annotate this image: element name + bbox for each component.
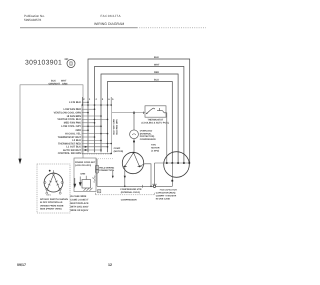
wire from board to thermostat: [112, 112, 145, 114]
svg-text:09/17: 09/17: [17, 263, 26, 267]
svg-text:FIELD WIRING: FIELD WIRING: [99, 166, 114, 169]
terminal stub pin 2: [81, 97, 83, 105]
svg-text:(INTERNAL OVLD): (INTERNAL OVLD): [121, 191, 140, 194]
svg-text:WITH 105C 600V: WITH 105C 600V: [70, 205, 88, 208]
svg-text:5995438578: 5995438578: [24, 18, 41, 22]
svg-text:COMPRESSOR: COMPRESSOR: [121, 198, 137, 201]
svg-text:FAN CAPACITOR: FAN CAPACITOR: [160, 189, 177, 192]
wire row 4: [82, 115, 101, 117]
overload label: [140, 130, 156, 141]
svg-text:PROTECTOR): PROTECTOR): [140, 135, 155, 138]
terminal pin numbers: [83, 98, 114, 101]
svg-text:NO: NO: [65, 58, 69, 61]
terminal junction dots on board top: [82, 104, 112, 106]
svg-text:1: 1: [89, 98, 91, 101]
svg-text:4: 4: [95, 98, 97, 101]
wire nut symbol: [65, 58, 75, 68]
compressor motor: [122, 152, 143, 173]
LCDI device coil: [95, 170, 98, 173]
fan motor winding chord: [155, 162, 190, 164]
wire row 1: [82, 101, 88, 103]
wire row 2: [82, 108, 95, 110]
wire row 7: [82, 125, 101, 127]
overload protector OL: [130, 130, 139, 139]
wire S leg: [124, 166, 126, 186]
svg-text:RED: RED: [154, 71, 159, 74]
bottom bus wire: [97, 185, 173, 187]
wire row 14: [82, 149, 101, 151]
svg-text:OVERLOAD: OVERLOAD: [140, 130, 153, 133]
rotary top stem: [53, 170, 55, 172]
rotary switch face: [44, 173, 63, 192]
ground arrow plug: [79, 177, 81, 183]
junction square on fan lead: [171, 180, 173, 182]
rotary switch enclosure (dashed): [37, 164, 70, 213]
svg-text:2: 2: [83, 98, 85, 101]
terminal C: [133, 152, 135, 154]
control box (selector switch enclosure): [20, 85, 83, 160]
svg-text:CONTROL SW GRN: CONTROL SW GRN: [58, 152, 81, 155]
wire overload to compressor: [133, 139, 135, 153]
svg-text:GRN: GRN: [80, 172, 85, 175]
wire row 13: [82, 146, 108, 148]
svg-text:LOW COOL GRY: LOW COOL GRY: [61, 125, 81, 128]
wire note legend: [70, 195, 89, 212]
svg-text:COMPRESSOR MTR: COMPRESSOR MTR: [120, 188, 142, 191]
thermostat box: [145, 106, 166, 117]
compressor windings: [123, 153, 142, 167]
wire thermostat to L4: [165, 113, 168, 163]
wire row 8: [82, 129, 88, 131]
svg-text:MUST REPLACE: MUST REPLACE: [70, 202, 89, 205]
fan motor bottom lead: [171, 163, 173, 186]
rotary switch spokes: [48, 175, 54, 189]
svg-text:WHT: WHT: [154, 64, 160, 67]
svg-text:L1 IN BLK: L1 IN BLK: [69, 101, 81, 104]
switch terminal board bottom edge: [82, 153, 112, 155]
svg-text:CONNECTION: CONNECTION: [99, 169, 114, 172]
svg-text:THERMOSTAT: THERMOSTAT: [148, 119, 164, 122]
switch terminal board box: [82, 105, 112, 154]
cord coil: [94, 176, 95, 183]
run capacitor: [154, 163, 156, 185]
svg-text:12: 12: [108, 263, 112, 267]
header rule: [20, 27, 137, 29]
fan motor label: [151, 144, 160, 153]
ground arrow left: [74, 178, 76, 185]
rotary switch terminals: [44, 173, 63, 195]
svg-text:309103901: 309103901: [25, 59, 62, 66]
wire row 12: [82, 143, 111, 145]
wire row 6: [82, 122, 95, 124]
svg-text:IN ONE CASE: IN ONE CASE: [156, 197, 171, 200]
svg-text:POWER CORD SET: POWER CORD SET: [75, 161, 96, 164]
svg-text:(3 SPD): (3 SPD): [151, 149, 159, 152]
svg-text:GRN: GRN: [62, 82, 68, 85]
svg-text:IN OFF POSITION AS: IN OFF POSITION AS: [40, 201, 63, 204]
junction square on compressor feed: [133, 141, 135, 143]
svg-text:BLK WHT GRN: BLK WHT GRN: [113, 119, 116, 135]
svg-text:FAN: FAN: [151, 144, 156, 147]
terminal S: [124, 166, 126, 168]
svg-text:(COOLING & AUTO POS.): (COOLING & AUTO POS.): [142, 122, 170, 125]
svg-text:SIDE (FRONT VIEW): SIDE (FRONT VIEW): [40, 208, 62, 211]
arrow on AUTO SWITCH row: [85, 149, 88, 151]
capacitor terminal: [153, 185, 155, 187]
compressor circuit bracket: [96, 193, 155, 195]
plug hatching: [84, 188, 93, 191]
wire to overload: [133, 113, 135, 130]
wire loop L3: [101, 74, 178, 163]
svg-text:FAC063J7A: FAC063J7A: [101, 14, 122, 18]
svg-text:(INTERNAL: (INTERNAL: [140, 132, 152, 135]
wire row 10: [82, 136, 95, 138]
svg-text:MOTOR: MOTOR: [151, 147, 160, 150]
thermostat switch symbol: [144, 108, 167, 114]
svg-text:GRN/WHT: GRN/WHT: [49, 82, 61, 85]
wire loop L2: [95, 67, 184, 164]
plug body: [82, 180, 91, 189]
arrow on S leg: [124, 176, 126, 179]
svg-text:VIEWED FROM KNOB: VIEWED FROM KNOB: [40, 204, 64, 207]
LCDI device body: [95, 166, 98, 170]
svg-text:BLU RED ORN: BLU RED ORN: [116, 119, 119, 135]
header publication number: [24, 14, 45, 22]
switch row wires: [82, 102, 111, 153]
wire row 9: [82, 133, 108, 135]
svg-text:BLK: BLK: [154, 56, 159, 59]
dashed wire from cord box top: [96, 158, 113, 160]
wire loop L4: [108, 82, 173, 164]
plug lead: [85, 176, 87, 180]
wire loop L1 (outermost, BLK): [88, 59, 190, 163]
wire row 5: [82, 118, 108, 120]
svg-text:WIRE OR EQUIV: WIRE OR EQUIV: [70, 209, 88, 212]
svg-text:5: 5: [112, 98, 114, 101]
svg-text:CAME LOOSE IT: CAME LOOSE IT: [70, 198, 89, 201]
LCDI device lead: [96, 159, 98, 187]
svg-text:3: 3: [102, 98, 104, 101]
fan motor: [164, 152, 190, 178]
power cord box: [74, 158, 96, 192]
wire row 11: [82, 139, 101, 141]
svg-text:COMPRESSOR: COMPRESSOR: [140, 138, 156, 141]
compressor case tick: [112, 171, 114, 177]
arrow on L1 OUT row: [85, 146, 88, 148]
spoke wiper ticks: [48, 181, 59, 185]
svg-text:1 3 5: 1 3 5: [47, 194, 51, 197]
terminal R: [139, 166, 141, 168]
terminal stub pin 5: [110, 97, 112, 105]
node arrow at thermostat tap: [133, 111, 135, 114]
ground arrow at control box left lead: [18, 159, 21, 165]
bus tick: [142, 185, 144, 188]
svg-text:WIRING DIAGRAM: WIRING DIAGRAM: [94, 22, 124, 26]
svg-text:ROTARY SWITCH SHOWN: ROTARY SWITCH SHOWN: [40, 198, 68, 201]
svg-text:COMP: COMP: [114, 147, 121, 150]
switch row labels and wires: [54, 101, 82, 155]
off position dot: [49, 170, 51, 172]
wire row 15: [82, 152, 111, 154]
svg-text:COMPR + FAN MTR: COMPR + FAN MTR: [156, 195, 177, 198]
rotary switch caption: [40, 198, 68, 211]
svg-text:(MOTOR): (MOTOR): [114, 150, 124, 153]
svg-text:(LCDI OR AFCI): (LCDI OR AFCI): [75, 164, 91, 167]
svg-text:CAPACITOR (RUN): CAPACITOR (RUN): [156, 192, 176, 195]
svg-text:6: 6: [108, 98, 110, 101]
wire R leg elbow: [140, 164, 152, 187]
wire row 3: [82, 112, 88, 114]
fan motor terminal dots: [166, 162, 191, 164]
svg-text:BLU: BLU: [154, 79, 159, 82]
terminal P box: [98, 190, 101, 193]
terminal stubs: [46, 190, 48, 192]
junction dots on switch rows: [87, 101, 112, 154]
svg-text:IN CASE WIRE: IN CASE WIRE: [70, 195, 86, 198]
